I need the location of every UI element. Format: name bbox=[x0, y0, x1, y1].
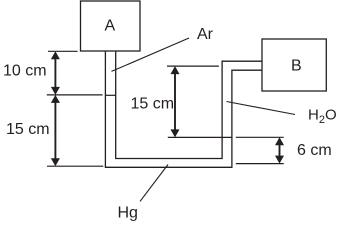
arrow 15cm-mid stem bbox=[174, 72, 176, 132]
arrowhead 15cm-left down bbox=[51, 158, 60, 166]
tick right-top (6cm upper) bbox=[236, 136, 284, 138]
svg-text:6 cm: 6 cm bbox=[297, 142, 332, 159]
svg-text:A: A bbox=[105, 18, 116, 35]
leader line Hg bbox=[140, 165, 168, 202]
svg-text:Hg: Hg bbox=[118, 205, 138, 222]
tick right-bottom (6cm lower) bbox=[236, 163, 284, 165]
arrowhead 6cm down bbox=[275, 156, 284, 164]
arrow 15cm-left stem bbox=[54, 101, 56, 161]
svg-text:15 cm: 15 cm bbox=[6, 121, 50, 138]
tick top-left (bottom of A level) bbox=[48, 50, 78, 52]
vessel A bbox=[81, 1, 141, 51]
vessel B bbox=[262, 39, 326, 91]
svg-text:H2O: H2O bbox=[308, 107, 337, 127]
tick mid-bottom + interface in right tube bbox=[168, 136, 232, 138]
arrowhead 10cm down bbox=[51, 87, 60, 95]
tube inner wall bbox=[116, 51, 262, 159]
svg-text:Ar: Ar bbox=[197, 26, 214, 43]
svg-text:15 cm: 15 cm bbox=[131, 96, 175, 113]
leader line Ar bbox=[112, 38, 190, 71]
arrowhead 15cm-mid up bbox=[171, 66, 180, 74]
arrowhead 6cm up bbox=[275, 137, 284, 145]
arrowhead 15cm-left up bbox=[51, 95, 60, 103]
tube outer wall bbox=[105, 51, 262, 167]
arrowhead 15cm-mid down bbox=[171, 129, 180, 137]
svg-text:10 cm: 10 cm bbox=[3, 63, 47, 80]
svg-text:B: B bbox=[291, 58, 302, 75]
arrowhead 10cm up bbox=[51, 51, 60, 59]
interface line in left tube bbox=[105, 94, 115, 96]
arrow 6cm stem bbox=[279, 143, 281, 158]
tick mid-top (water level line from B tube) bbox=[167, 65, 219, 67]
tick bottom-left bbox=[47, 165, 103, 167]
arrow 10cm stem bbox=[54, 57, 56, 90]
tick mid-left (Hg level in left tube) bbox=[47, 94, 103, 96]
leader line H2O bbox=[227, 102, 296, 115]
